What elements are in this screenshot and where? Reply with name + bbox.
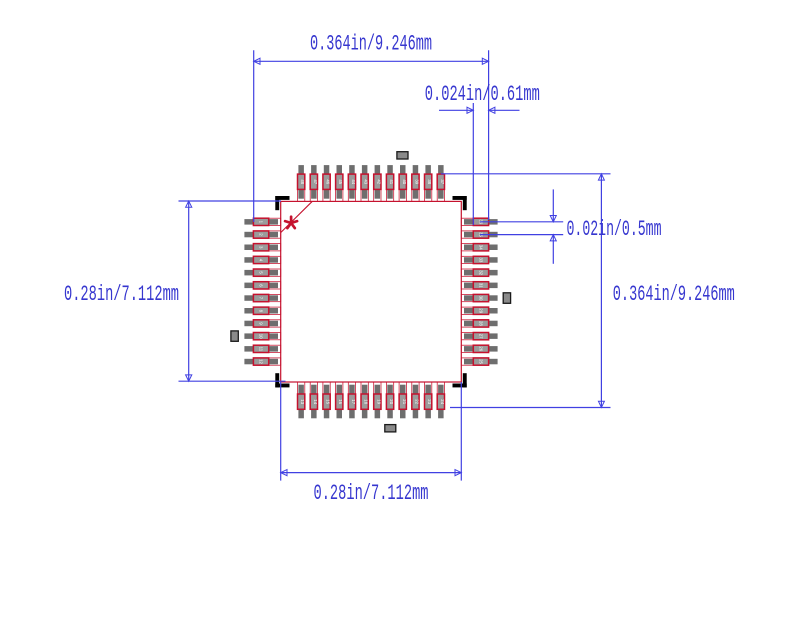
svg-text:19: 19 bbox=[376, 399, 381, 404]
dimension: body height 0.28in/7.112mm (left) bbox=[64, 201, 286, 381]
svg-text:17: 17 bbox=[351, 399, 356, 404]
pin 39 pad (top) bbox=[412, 165, 420, 201]
svg-text:39: 39 bbox=[415, 179, 420, 184]
pin 45 pad (top) bbox=[336, 165, 344, 201]
svg-text:18: 18 bbox=[364, 399, 369, 404]
svg-text:0.364in/9.246mm: 0.364in/9.246mm bbox=[310, 32, 432, 57]
svg-text:41: 41 bbox=[389, 179, 394, 184]
pin 16 pad (bottom) bbox=[336, 382, 344, 418]
svg-text:0.364in/9.246mm: 0.364in/9.246mm bbox=[613, 282, 735, 307]
pin 1 chamfer line bbox=[281, 201, 313, 232]
dimension: foot length 0.024in/0.61mm bbox=[425, 82, 540, 225]
pin 48 pad (top) bbox=[298, 165, 306, 201]
pin 7 pad (left) bbox=[244, 294, 280, 301]
svg-text:28: 28 bbox=[479, 321, 484, 326]
svg-text:21: 21 bbox=[402, 399, 407, 404]
pin 5 pad (left) bbox=[244, 269, 280, 276]
IC body outline U1 bbox=[281, 201, 462, 382]
svg-text:42: 42 bbox=[376, 179, 381, 184]
pin 12 pad (left) bbox=[244, 358, 280, 365]
pin 47 pad (top) bbox=[310, 165, 318, 201]
pin 35 pad (right) bbox=[461, 231, 497, 238]
pin 18 pad (bottom) bbox=[361, 382, 369, 418]
pin 34 pad (right) bbox=[461, 244, 497, 251]
corner bracket top-left bbox=[275, 196, 289, 210]
svg-text:30: 30 bbox=[479, 296, 484, 301]
pin 32 pad (right) bbox=[461, 269, 497, 276]
svg-text:26: 26 bbox=[479, 346, 484, 351]
svg-text:11: 11 bbox=[259, 347, 264, 352]
pin 43 pad (top) bbox=[361, 165, 369, 201]
orientation marker right bbox=[503, 293, 510, 304]
pin 25 pad (right) bbox=[461, 358, 497, 365]
pin 2 pad (left) bbox=[244, 231, 280, 238]
svg-text:15: 15 bbox=[326, 399, 331, 404]
dimension: overall height 0.364in/9.246mm (right) bbox=[441, 174, 735, 408]
pin 27 pad (right) bbox=[461, 333, 497, 340]
svg-text:0.28in/7.112mm: 0.28in/7.112mm bbox=[64, 282, 179, 307]
pin 20 pad (bottom) bbox=[386, 382, 394, 418]
svg-text:0.02in/0.5mm: 0.02in/0.5mm bbox=[567, 217, 662, 242]
orientation marker left bbox=[231, 331, 238, 341]
pin 3 pad (left) bbox=[244, 244, 280, 251]
pin 4 pad (left) bbox=[244, 256, 280, 263]
pin 38 pad (top) bbox=[425, 165, 433, 201]
pin 1 pad (left) bbox=[244, 218, 280, 225]
svg-text:16: 16 bbox=[338, 399, 343, 404]
svg-text:0.28in/7.112mm: 0.28in/7.112mm bbox=[314, 481, 429, 506]
pin 1 marker asterisk bbox=[285, 217, 297, 228]
svg-text:10: 10 bbox=[259, 334, 264, 339]
corner bracket bottom-left bbox=[275, 373, 289, 387]
svg-text:44: 44 bbox=[351, 179, 356, 184]
pin 41 pad (top) bbox=[386, 165, 394, 201]
pin 46 pad (top) bbox=[323, 165, 331, 201]
pin 21 pad (bottom) bbox=[399, 382, 407, 418]
svg-text:40: 40 bbox=[402, 179, 407, 184]
svg-text:23: 23 bbox=[427, 399, 432, 404]
pin 40 pad (top) bbox=[399, 165, 407, 201]
pin 44 pad (top) bbox=[348, 165, 356, 201]
svg-text:31: 31 bbox=[479, 283, 484, 288]
svg-text:20: 20 bbox=[389, 399, 394, 404]
pin 15 pad (bottom) bbox=[323, 382, 331, 418]
corner bracket bottom-right bbox=[453, 373, 467, 387]
svg-text:45: 45 bbox=[338, 179, 343, 184]
svg-text:43: 43 bbox=[364, 179, 369, 184]
svg-text:32: 32 bbox=[479, 270, 484, 275]
svg-text:37: 37 bbox=[440, 179, 445, 184]
svg-text:12: 12 bbox=[259, 359, 264, 364]
svg-text:46: 46 bbox=[326, 179, 331, 184]
dimension: pad pitch 0.02in/0.5mm bbox=[480, 189, 662, 263]
svg-text:24: 24 bbox=[440, 399, 445, 404]
pin 36 pad (right) bbox=[461, 218, 497, 225]
svg-text:29: 29 bbox=[479, 308, 484, 313]
pin 10 pad (left) bbox=[244, 333, 280, 340]
orientation marker bottom bbox=[385, 425, 396, 432]
pin 31 pad (right) bbox=[461, 282, 497, 289]
svg-text:14: 14 bbox=[313, 399, 318, 404]
pin 6 pad (left) bbox=[244, 282, 280, 289]
pin 37 pad (top) bbox=[437, 165, 445, 201]
svg-text:34: 34 bbox=[479, 245, 484, 250]
svg-text:38: 38 bbox=[427, 179, 432, 184]
pin 8 pad (left) bbox=[244, 307, 280, 314]
pin 22 pad (bottom) bbox=[412, 382, 420, 418]
dimension: overall width 0.364in/9.246mm (top) bbox=[254, 32, 489, 223]
pin 29 pad (right) bbox=[461, 307, 497, 314]
pin 33 pad (right) bbox=[461, 256, 497, 263]
orientation marker top bbox=[397, 152, 408, 159]
svg-text:22: 22 bbox=[414, 399, 419, 404]
pin 26 pad (right) bbox=[461, 345, 497, 352]
pin 9 pad (left) bbox=[244, 320, 280, 327]
pin 42 pad (top) bbox=[374, 165, 382, 201]
svg-text:33: 33 bbox=[479, 258, 484, 263]
svg-text:27: 27 bbox=[479, 334, 484, 339]
pin 23 pad (bottom) bbox=[425, 382, 433, 418]
svg-text:0.024in/0.61mm: 0.024in/0.61mm bbox=[425, 82, 540, 107]
pin 19 pad (bottom) bbox=[374, 382, 382, 418]
pin 11 pad (left) bbox=[244, 345, 280, 352]
pin 24 pad (bottom) bbox=[437, 382, 445, 418]
pin 28 pad (right) bbox=[461, 320, 497, 327]
dimension: body width 0.28in/7.112mm (bottom) bbox=[281, 382, 462, 506]
svg-text:25: 25 bbox=[479, 359, 484, 364]
pin 14 pad (bottom) bbox=[310, 382, 318, 418]
corner bracket top-right bbox=[453, 196, 467, 210]
pin 13 pad (bottom) bbox=[298, 382, 306, 418]
pin 17 pad (bottom) bbox=[348, 382, 356, 418]
pin 30 pad (right) bbox=[461, 294, 497, 301]
svg-text:47: 47 bbox=[313, 179, 318, 184]
svg-text:48: 48 bbox=[300, 179, 305, 184]
svg-text:13: 13 bbox=[300, 399, 305, 404]
